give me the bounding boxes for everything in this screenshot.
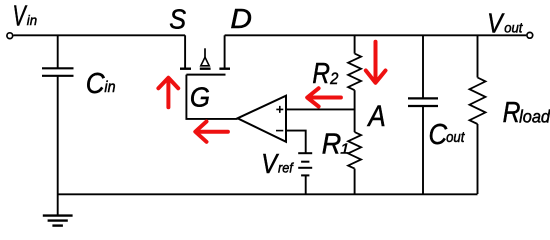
svg-text:ref: ref <box>278 160 294 176</box>
svg-text:R: R <box>312 57 330 89</box>
svg-text:A: A <box>366 99 385 132</box>
svg-text:V: V <box>487 8 505 38</box>
svg-text:in: in <box>27 12 37 27</box>
svg-text:V: V <box>261 149 280 179</box>
svg-text:load: load <box>519 106 550 127</box>
svg-text:R: R <box>322 128 341 160</box>
svg-text:S: S <box>169 3 186 35</box>
svg-text:V: V <box>13 1 28 32</box>
svg-text:2: 2 <box>329 70 338 88</box>
svg-text:in: in <box>104 80 115 97</box>
svg-text:out: out <box>504 20 523 35</box>
svg-text:D: D <box>230 4 252 35</box>
svg-text:R: R <box>503 96 521 128</box>
svg-text:C: C <box>86 67 106 100</box>
svg-text:1: 1 <box>340 141 349 157</box>
svg-text:C: C <box>429 118 448 151</box>
svg-text:out: out <box>446 128 465 145</box>
svg-text:G: G <box>190 81 210 113</box>
